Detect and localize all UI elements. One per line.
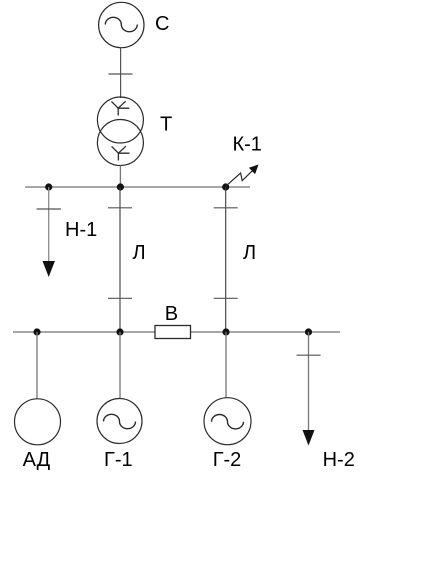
label L2 xyxy=(243,242,256,264)
svg-text:АД: АД xyxy=(23,449,51,471)
svg-text:Н-1: Н-1 xyxy=(65,219,97,241)
junction dot bus1 / line 2 xyxy=(222,183,229,190)
switch tick H-2 xyxy=(297,354,321,356)
load H-2 arrowhead xyxy=(303,430,315,446)
svg-text:С: С xyxy=(155,13,169,35)
label H-1 xyxy=(65,219,97,241)
svg-text:Л: Л xyxy=(243,242,256,264)
svg-text:В: В xyxy=(165,303,178,325)
junction dot bus2 / H-2 xyxy=(305,328,312,335)
source C circle xyxy=(99,2,144,47)
switch tick L2 top xyxy=(214,207,238,209)
switch tick L1 top xyxy=(108,207,132,209)
label L1 xyxy=(133,242,146,264)
svg-text:Г-1: Г-1 xyxy=(104,449,133,471)
label C xyxy=(155,13,169,35)
line L1 (left feeder) wire xyxy=(119,187,121,332)
fault arrow K-1 xyxy=(226,165,259,187)
wire source to transformer xyxy=(120,48,122,99)
svg-text:Г-2: Г-2 xyxy=(213,449,242,471)
bus 1 (upper busbar) xyxy=(25,186,250,188)
junction dot bus1 / H-1 xyxy=(45,183,52,190)
label B xyxy=(165,303,178,325)
disconnector tick between C and T xyxy=(109,73,133,75)
junction dot bus2 / AD xyxy=(33,328,40,335)
label T xyxy=(160,114,172,136)
transformer T xyxy=(97,97,143,166)
line L2 (right feeder) wire xyxy=(225,187,227,332)
label H-2 xyxy=(323,449,355,471)
switch tick L1 bottom xyxy=(108,297,132,299)
wire bus2 to generator G-1 xyxy=(119,332,121,398)
bus 2 (lower busbar) xyxy=(13,331,340,333)
svg-text:Н-2: Н-2 xyxy=(323,449,355,471)
load H-2 branch wire xyxy=(308,332,310,431)
wire bus2 to generator G-2 xyxy=(225,332,227,398)
junction dot bus1 / transformer xyxy=(117,183,124,190)
motor AD circle xyxy=(15,399,61,445)
label G-2 xyxy=(213,449,242,471)
generator G-2 circle xyxy=(204,398,251,445)
load H-1 branch wire xyxy=(48,187,50,262)
junction dot bus2 / G-1 xyxy=(116,328,123,335)
switch tick H-1 xyxy=(37,208,61,210)
svg-text:К-1: К-1 xyxy=(233,134,262,156)
reactor B (rectangle in bus) xyxy=(155,326,191,339)
load H-1 arrowhead xyxy=(43,261,55,277)
junction dot bus2 / G-2 xyxy=(222,328,229,335)
generator G-1 circle xyxy=(97,399,142,444)
svg-text:Т: Т xyxy=(160,114,172,136)
label K-1 xyxy=(233,134,262,156)
wire bus2 to motor AD xyxy=(36,332,38,399)
switch tick L2 bottom xyxy=(214,297,238,299)
wire transformer to bus 1 xyxy=(119,166,121,188)
label G-1 xyxy=(104,449,133,471)
svg-text:Л: Л xyxy=(133,242,146,264)
label AD xyxy=(23,449,51,471)
